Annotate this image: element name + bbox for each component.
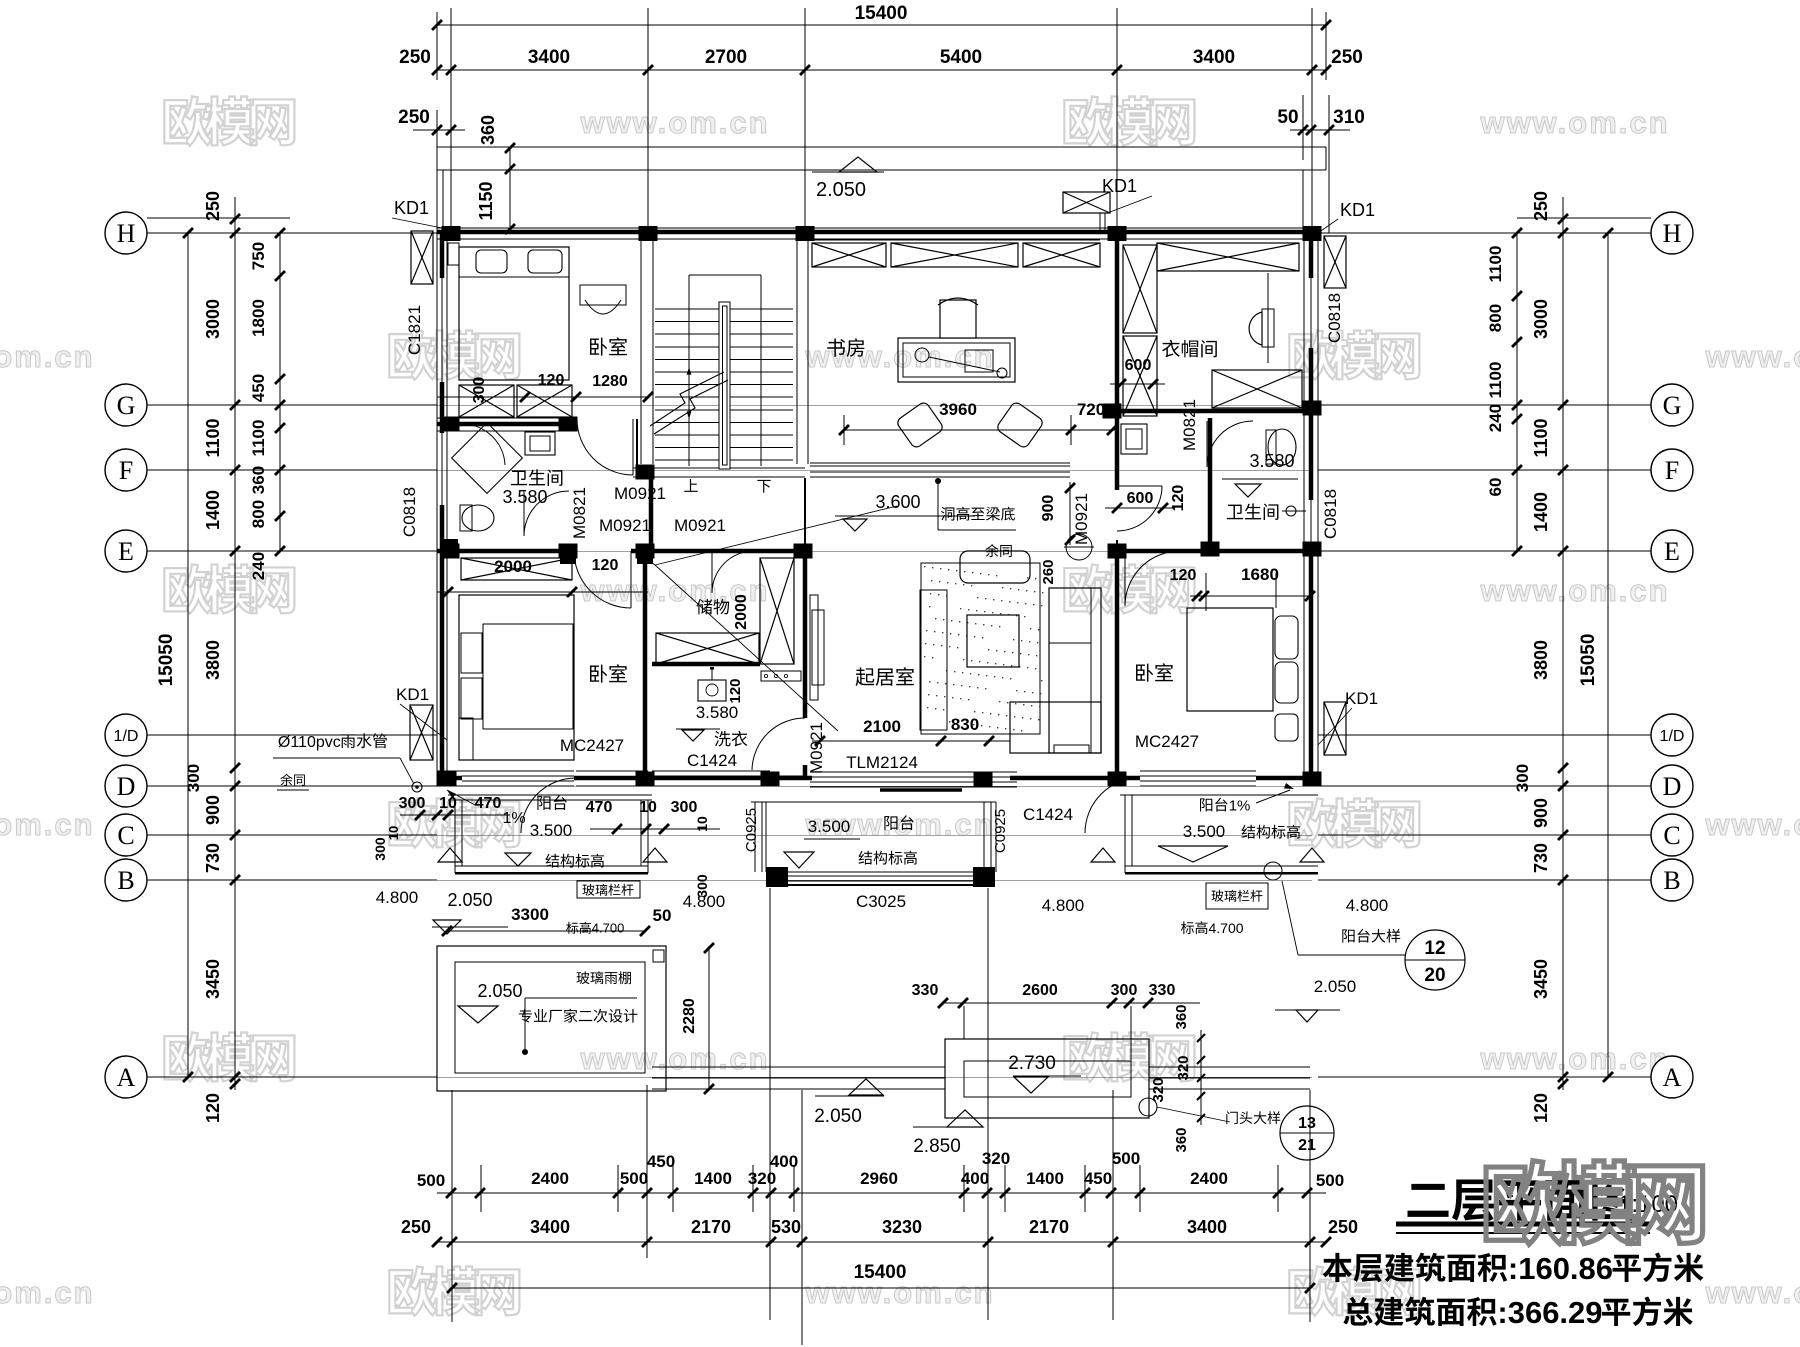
svg-text:13: 13 xyxy=(1298,1115,1316,1132)
svg-text:1680: 1680 xyxy=(1241,565,1279,584)
svg-text:1400: 1400 xyxy=(1531,492,1551,532)
svg-text:400: 400 xyxy=(961,1169,989,1188)
svg-text:12: 12 xyxy=(1424,938,1445,959)
svg-text:10: 10 xyxy=(639,799,657,816)
svg-text:10: 10 xyxy=(386,826,401,840)
svg-text:1100: 1100 xyxy=(203,418,223,457)
svg-text:www.om.cn: www.om.cn xyxy=(1704,807,1800,842)
svg-text:G: G xyxy=(1663,391,1682,420)
svg-text:www.om.cn: www.om.cn xyxy=(1479,573,1669,608)
svg-text:2.050: 2.050 xyxy=(816,179,866,201)
svg-text:15400: 15400 xyxy=(855,3,908,24)
svg-text:C: C xyxy=(117,821,134,850)
svg-text:3400: 3400 xyxy=(1187,1217,1227,1237)
svg-text:2.730: 2.730 xyxy=(1008,1053,1056,1074)
svg-text:3400: 3400 xyxy=(530,1217,570,1237)
svg-text:320: 320 xyxy=(748,1169,776,1188)
svg-text:3960: 3960 xyxy=(939,400,977,419)
svg-text:C0818: C0818 xyxy=(400,487,419,537)
svg-text:C1424: C1424 xyxy=(1023,805,1073,824)
svg-text:1100: 1100 xyxy=(249,420,268,457)
svg-text:2700: 2700 xyxy=(705,47,747,68)
svg-text:15050: 15050 xyxy=(156,634,177,687)
svg-text:15050: 15050 xyxy=(1578,634,1599,687)
svg-text:A: A xyxy=(1663,1063,1682,1092)
svg-text:300: 300 xyxy=(471,377,488,404)
svg-text:360: 360 xyxy=(478,115,498,145)
svg-text:1%: 1% xyxy=(502,810,525,827)
svg-text:M0921: M0921 xyxy=(807,722,826,774)
svg-text:1100: 1100 xyxy=(1486,362,1505,399)
svg-text:3.500: 3.500 xyxy=(808,817,851,836)
svg-text:C: C xyxy=(1663,821,1680,850)
svg-text:MC2427: MC2427 xyxy=(560,736,624,755)
svg-text:730: 730 xyxy=(1531,843,1551,873)
svg-text:500: 500 xyxy=(417,1171,445,1190)
svg-text:www.om.cn: www.om.cn xyxy=(1479,1041,1669,1076)
svg-text:KD1: KD1 xyxy=(394,198,429,218)
svg-text:www.om.cn: www.om.cn xyxy=(1704,339,1800,374)
svg-text:450: 450 xyxy=(249,374,268,402)
svg-text:2600: 2600 xyxy=(1022,982,1058,999)
svg-text:1/D: 1/D xyxy=(1660,728,1685,745)
svg-text:2400: 2400 xyxy=(531,1169,569,1188)
svg-text:3.580: 3.580 xyxy=(502,487,547,507)
svg-text:F: F xyxy=(1665,456,1679,485)
svg-text:M0921: M0921 xyxy=(1072,493,1091,545)
svg-text:500: 500 xyxy=(620,1169,648,1188)
svg-text:1400: 1400 xyxy=(694,1169,732,1188)
svg-text:1150: 1150 xyxy=(476,181,496,220)
svg-text:D: D xyxy=(117,772,136,801)
svg-text:800: 800 xyxy=(1486,304,1505,332)
svg-text:M0921: M0921 xyxy=(674,516,726,535)
svg-text:3000: 3000 xyxy=(203,299,223,339)
svg-text:3800: 3800 xyxy=(203,640,223,680)
svg-text:KD1: KD1 xyxy=(396,685,429,704)
svg-text:3.500: 3.500 xyxy=(1183,822,1226,841)
svg-text:600: 600 xyxy=(1127,490,1154,507)
svg-text:www.om.cn: www.om.cn xyxy=(579,1041,769,1076)
svg-text:2.050: 2.050 xyxy=(447,890,492,910)
svg-text:C0818: C0818 xyxy=(1321,489,1340,539)
svg-text:360: 360 xyxy=(249,466,268,494)
svg-text:120: 120 xyxy=(1170,485,1187,512)
svg-text:www.om.cn: www.om.cn xyxy=(0,339,95,374)
svg-text:2000: 2000 xyxy=(733,594,750,630)
svg-text:360: 360 xyxy=(1173,1127,1190,1152)
svg-text:2.050: 2.050 xyxy=(814,1106,862,1127)
svg-text:900: 900 xyxy=(1040,495,1057,522)
svg-text:C0925: C0925 xyxy=(992,809,1009,853)
svg-text:300: 300 xyxy=(1111,982,1138,999)
svg-text:www.om.cn: www.om.cn xyxy=(804,339,994,374)
svg-text:E: E xyxy=(118,537,134,566)
svg-text:720: 720 xyxy=(1077,400,1105,419)
svg-text:3.500: 3.500 xyxy=(530,821,573,840)
svg-text:C1821: C1821 xyxy=(405,305,424,355)
svg-text:600: 600 xyxy=(1125,357,1152,374)
svg-text::366.29: :366.29 xyxy=(1497,1295,1602,1330)
svg-text:250: 250 xyxy=(401,1217,431,1237)
svg-text:2100: 2100 xyxy=(863,717,901,736)
svg-text:60: 60 xyxy=(1486,478,1505,497)
svg-text:4.800: 4.800 xyxy=(1042,896,1085,915)
svg-text:500: 500 xyxy=(1112,1149,1140,1168)
svg-text:120: 120 xyxy=(1170,567,1197,584)
svg-text:H: H xyxy=(1663,219,1682,248)
svg-text:1100: 1100 xyxy=(1531,418,1551,457)
svg-text:10: 10 xyxy=(694,816,710,832)
svg-text:450: 450 xyxy=(1084,1169,1112,1188)
svg-text:50: 50 xyxy=(653,906,672,925)
svg-text:470: 470 xyxy=(586,799,613,816)
svg-text:330: 330 xyxy=(912,982,939,999)
svg-text:1400: 1400 xyxy=(203,490,223,530)
svg-text:www.om.cn: www.om.cn xyxy=(1704,1275,1800,1310)
svg-text:2400: 2400 xyxy=(1190,1169,1228,1188)
svg-text:530: 530 xyxy=(771,1217,801,1237)
svg-text:310: 310 xyxy=(1333,107,1365,128)
svg-text:300: 300 xyxy=(184,764,203,792)
svg-text:KD1: KD1 xyxy=(1340,200,1375,220)
svg-text:3.580: 3.580 xyxy=(696,703,739,722)
svg-text:D: D xyxy=(1663,772,1682,801)
svg-text:2280: 2280 xyxy=(681,998,698,1034)
svg-text:4.700: 4.700 xyxy=(592,921,625,936)
svg-text:250: 250 xyxy=(1531,191,1551,221)
svg-text:C0818: C0818 xyxy=(1325,293,1344,343)
svg-text:250: 250 xyxy=(203,191,223,221)
svg-text:3000: 3000 xyxy=(1531,299,1551,339)
svg-text:360: 360 xyxy=(1173,1004,1190,1029)
svg-text:730: 730 xyxy=(203,843,223,873)
svg-text:120: 120 xyxy=(203,1093,223,1123)
svg-text:3300: 3300 xyxy=(511,905,549,924)
svg-text:B: B xyxy=(1663,866,1680,895)
svg-text:2170: 2170 xyxy=(1029,1217,1069,1237)
svg-text:Ø110pvc: Ø110pvc xyxy=(278,734,341,751)
svg-text:www.om.cn: www.om.cn xyxy=(0,807,95,842)
svg-text:450: 450 xyxy=(647,1152,675,1171)
svg-text:50: 50 xyxy=(1277,107,1298,128)
svg-text:4.800: 4.800 xyxy=(376,888,419,907)
svg-text:KD1: KD1 xyxy=(1102,176,1137,196)
svg-text:1800: 1800 xyxy=(249,299,268,337)
svg-text:KD1: KD1 xyxy=(1345,689,1378,708)
svg-text:320: 320 xyxy=(1150,1077,1167,1102)
svg-text:320: 320 xyxy=(1175,1055,1192,1080)
svg-text:3230: 3230 xyxy=(882,1217,922,1237)
svg-text:1/D: 1/D xyxy=(114,728,139,745)
svg-text:www.om.cn: www.om.cn xyxy=(0,1275,95,1310)
svg-text:900: 900 xyxy=(1531,798,1551,828)
svg-text:1%: 1% xyxy=(1229,797,1251,814)
svg-text:M0821: M0821 xyxy=(570,487,589,539)
svg-text:4.800: 4.800 xyxy=(1346,896,1389,915)
svg-text:330: 330 xyxy=(1149,982,1176,999)
svg-text:C0925: C0925 xyxy=(743,808,760,852)
svg-text:C1424: C1424 xyxy=(687,751,737,770)
svg-text:M0821: M0821 xyxy=(1180,399,1199,451)
svg-text:3400: 3400 xyxy=(528,47,570,68)
svg-text:240: 240 xyxy=(249,552,268,580)
svg-text:1280: 1280 xyxy=(592,373,628,390)
svg-text:H: H xyxy=(117,219,136,248)
svg-text:MC2427: MC2427 xyxy=(1135,732,1199,751)
svg-text:240: 240 xyxy=(1486,404,1505,432)
svg-text:2.050: 2.050 xyxy=(1314,977,1357,996)
svg-text:C3025: C3025 xyxy=(856,892,906,911)
svg-text:3.580: 3.580 xyxy=(1249,451,1294,471)
svg-text:900: 900 xyxy=(203,795,223,825)
svg-text:3400: 3400 xyxy=(1193,47,1235,68)
svg-text:B: B xyxy=(117,866,134,895)
svg-text:300: 300 xyxy=(671,799,698,816)
svg-text:15400: 15400 xyxy=(854,1262,907,1283)
svg-text:2000: 2000 xyxy=(494,557,532,576)
svg-text:3450: 3450 xyxy=(1531,959,1551,999)
svg-text:A: A xyxy=(117,1063,136,1092)
svg-text:www.om.cn: www.om.cn xyxy=(579,105,769,140)
svg-text:120: 120 xyxy=(592,557,619,574)
svg-text:20: 20 xyxy=(1424,965,1445,986)
svg-text:www.om.cn: www.om.cn xyxy=(1479,105,1669,140)
svg-text:TLM2124: TLM2124 xyxy=(846,753,918,772)
svg-text:E: E xyxy=(1664,537,1680,566)
svg-text:2960: 2960 xyxy=(860,1169,898,1188)
svg-text:830: 830 xyxy=(951,715,979,734)
svg-text:21: 21 xyxy=(1298,1137,1316,1154)
svg-text:G: G xyxy=(117,391,136,420)
svg-text:500: 500 xyxy=(1316,1171,1344,1190)
svg-text:3.600: 3.600 xyxy=(875,492,920,512)
svg-text:260: 260 xyxy=(1040,559,1057,584)
svg-text:250: 250 xyxy=(398,107,430,128)
svg-text:5400: 5400 xyxy=(940,47,982,68)
svg-text:300: 300 xyxy=(399,795,426,812)
svg-text:120: 120 xyxy=(1531,1093,1551,1123)
svg-text:250: 250 xyxy=(1331,47,1363,68)
svg-text:4.700: 4.700 xyxy=(1209,920,1244,936)
svg-text:250: 250 xyxy=(1328,1217,1358,1237)
svg-text:320: 320 xyxy=(982,1149,1010,1168)
svg-text:250: 250 xyxy=(399,47,431,68)
svg-text:2170: 2170 xyxy=(691,1217,731,1237)
svg-text:F: F xyxy=(119,456,133,485)
svg-text::160.86: :160.86 xyxy=(1508,1251,1613,1286)
svg-text:1400: 1400 xyxy=(1026,1169,1064,1188)
svg-text:2.050: 2.050 xyxy=(477,981,522,1001)
svg-text:M0921: M0921 xyxy=(599,516,651,535)
svg-text:M0921: M0921 xyxy=(614,484,666,503)
svg-text:300: 300 xyxy=(1513,764,1532,792)
svg-text:3800: 3800 xyxy=(1531,640,1551,680)
svg-text:10: 10 xyxy=(439,795,457,812)
svg-text:750: 750 xyxy=(249,242,268,270)
svg-text:1100: 1100 xyxy=(1486,246,1505,283)
svg-text:300: 300 xyxy=(694,874,710,898)
svg-text:470: 470 xyxy=(475,795,502,812)
svg-text:120: 120 xyxy=(727,678,744,703)
svg-text:3450: 3450 xyxy=(203,959,223,999)
svg-text:120: 120 xyxy=(538,372,565,389)
svg-text:800: 800 xyxy=(249,500,268,528)
svg-text:2.850: 2.850 xyxy=(913,1136,961,1157)
